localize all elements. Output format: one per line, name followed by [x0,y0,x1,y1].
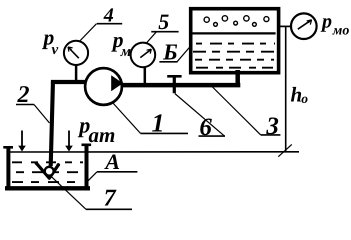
tank A left wall flange [3,146,13,149]
svg-text:3: 3 [265,113,279,140]
foot valve 7 arms [36,163,58,178]
svg-text:o: o [301,91,308,106]
tick mark at datum [278,144,292,156]
svg-text:2: 2 [17,82,30,108]
pump impeller triangle [111,75,123,91]
valve 6 T-bar [167,75,181,78]
h_o vertical line [285,27,287,152]
gauge pm0 circle [291,13,317,39]
leader for label 2 [34,105,50,124]
leader for label 3 [212,87,261,135]
svg-text:м: м [120,44,131,60]
wire: stem of gauge pv to suction pipe [75,66,78,82]
gauge pv circle [64,41,88,65]
wire: discharge riser up into tank B bottom [235,70,240,87]
svg-text:мо: мо [332,23,350,38]
svg-text:5: 5 [158,9,169,34]
tank A right wall [85,144,89,190]
tank B border [191,9,279,73]
wire: suction pipe horizontal elbow to pump [51,80,86,84]
foot valve 7 ball [45,167,54,176]
svg-text:7: 7 [104,186,117,212]
tank B liquid dashes [193,44,275,68]
wire: stem of gauge pm to discharge pipe [144,68,147,85]
svg-text:1: 1 [152,108,165,137]
leader for label B(tank) [177,45,192,62]
leader for label 6 [175,94,225,137]
svg-text:p: p [320,11,332,33]
tank A bottom [5,186,90,190]
leader for label 5 [146,32,157,44]
wire: tank B to gauge pm0 [280,25,292,27]
svg-text:4: 4 [103,5,114,27]
svg-text:Б: Б [162,39,178,64]
tank A liquid dashes [12,162,83,182]
gauge pm0 needle [298,20,312,29]
wire: discharge pipe horizontal from pump to riser [120,83,240,88]
wire: suction pipe vertical from tank A to elbow [51,82,53,166]
svg-text:v: v [52,42,59,58]
tank A right wall flange [82,144,92,147]
atmospheric arrow right [68,131,70,147]
svg-text:6: 6 [199,114,212,141]
tank B liquid surface [192,32,276,34]
tank A liquid surface and datum line to the right [10,151,299,153]
tank B bubbles [204,16,269,27]
svg-text:ат: ат [89,123,116,147]
leader for label 4 [80,24,97,41]
gauge pv needle [68,47,79,58]
svg-text:A: A [103,149,120,174]
gauge pm circle [131,43,156,68]
tank A left wall [6,146,10,190]
valve 6 stem [173,77,176,94]
leader for label 1 [113,103,141,134]
leader for label 7 [51,176,86,209]
pump 1 circle [85,68,122,105]
gauge pm needle [140,49,151,57]
leader for label A [86,172,98,184]
atmospheric arrow left [21,131,23,147]
